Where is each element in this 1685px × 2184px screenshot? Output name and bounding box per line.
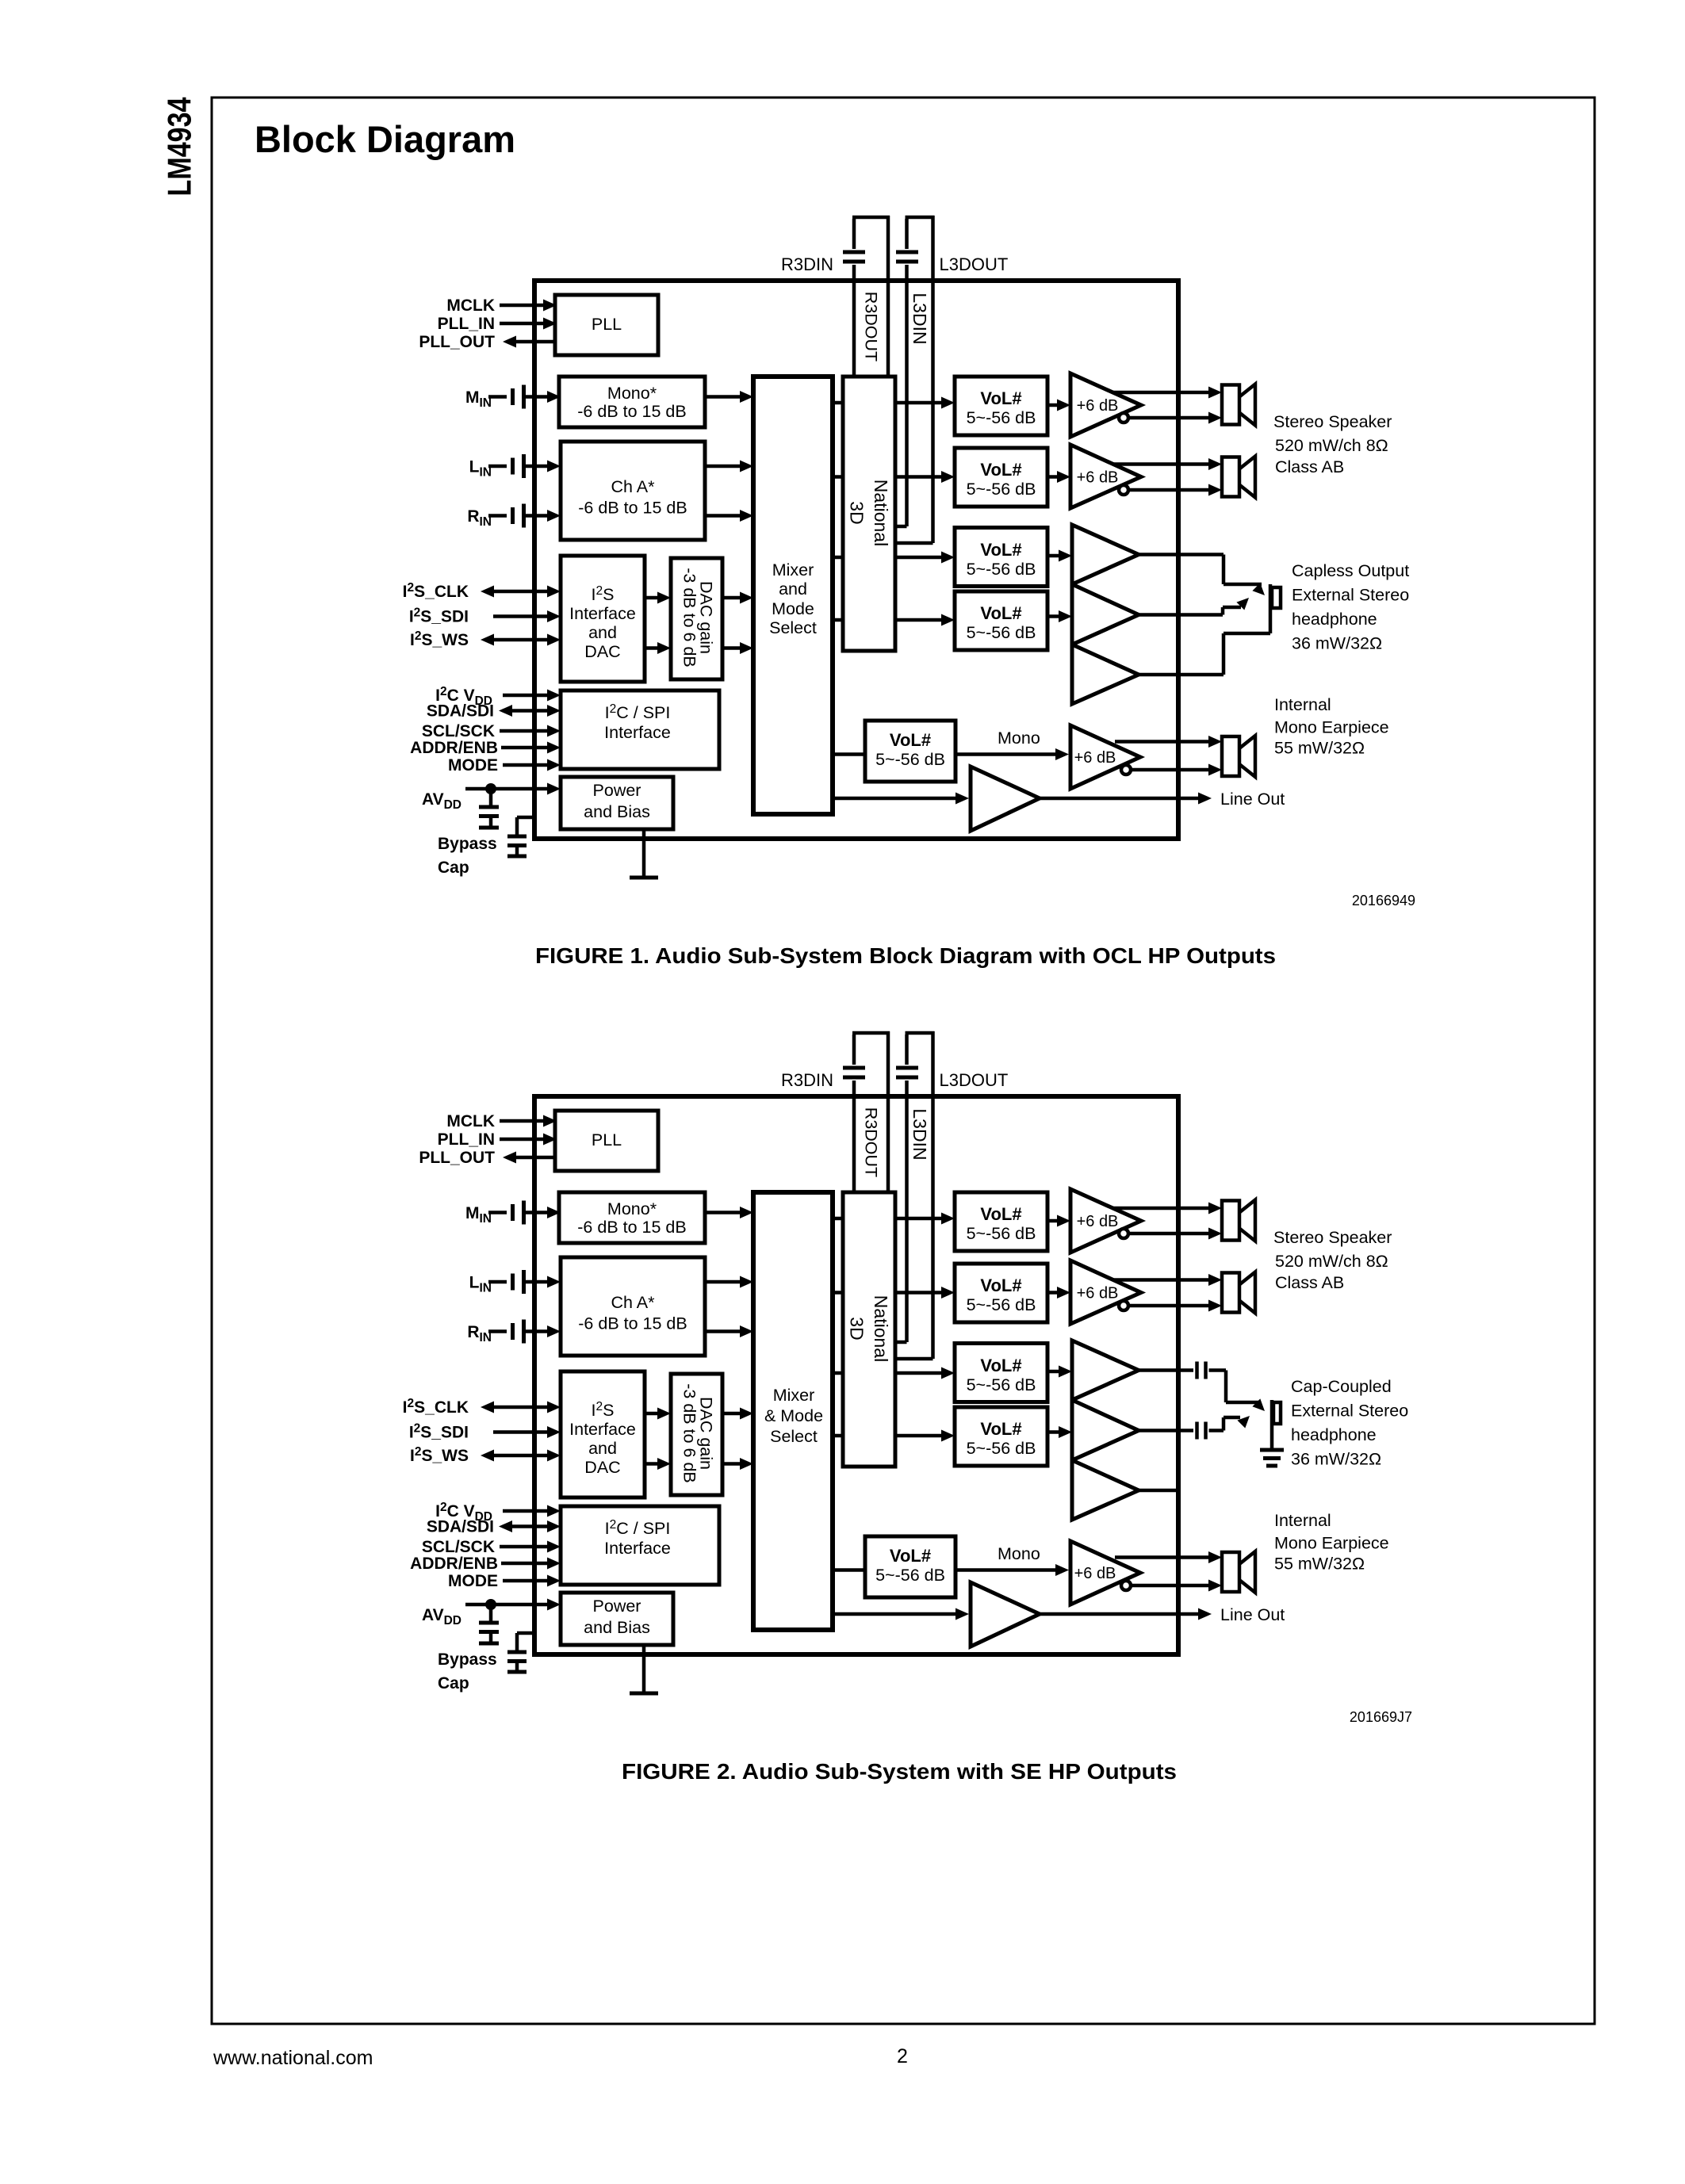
svg-text:Interface: Interface [604, 723, 671, 742]
svg-text:Stereo Speaker: Stereo Speaker [1273, 412, 1392, 431]
svg-text:5~-56 dB: 5~-56 dB [967, 623, 1036, 642]
svg-text:PLL_OUT: PLL_OUT [419, 1149, 495, 1167]
svg-text:Mixer: Mixer [772, 560, 814, 579]
svg-text:Interface: Interface [569, 604, 636, 623]
svg-text:55 mW/32Ω: 55 mW/32Ω [1274, 1555, 1365, 1574]
svg-text:36 mW/32Ω: 36 mW/32Ω [1292, 634, 1382, 653]
svg-text:L3DIN: L3DIN [910, 293, 930, 344]
svg-text:MODE: MODE [448, 1572, 498, 1590]
svg-text:Mono Earpiece: Mono Earpiece [1274, 718, 1389, 737]
svg-text:3D: 3D [847, 1317, 867, 1340]
svg-text:R3DOUT: R3DOUT [862, 1107, 881, 1177]
svg-text:Interface: Interface [604, 1539, 671, 1558]
svg-text:5~-56 dB: 5~-56 dB [875, 750, 945, 769]
svg-text:VoL#: VoL# [980, 460, 1021, 480]
svg-text:PLL_IN: PLL_IN [438, 1130, 495, 1149]
svg-text:+6 dB: +6 dB [1077, 397, 1119, 415]
svg-text:2: 2 [897, 2045, 908, 2067]
svg-text:Cap: Cap [438, 859, 469, 877]
svg-text:5~-56 dB: 5~-56 dB [967, 408, 1036, 427]
svg-text:36 mW/32Ω: 36 mW/32Ω [1291, 1450, 1381, 1469]
svg-text:FIGURE 1. Audio Sub-System Blo: FIGURE 1. Audio Sub-System Block Diagram… [535, 943, 1276, 968]
svg-text:Cap: Cap [438, 1674, 469, 1693]
svg-text:Mixer: Mixer [773, 1386, 815, 1405]
svg-text:Mono Earpiece: Mono Earpiece [1274, 1534, 1389, 1553]
svg-text:Bypass: Bypass [438, 835, 497, 853]
svg-text:R3DOUT: R3DOUT [862, 292, 881, 361]
svg-text:+6 dB: +6 dB [1074, 749, 1116, 767]
svg-text:VoL#: VoL# [980, 1419, 1021, 1439]
svg-text:R3DIN: R3DIN [781, 1070, 833, 1090]
svg-text:DAC: DAC [584, 1458, 620, 1477]
svg-text:headphone: headphone [1292, 610, 1377, 629]
svg-text:and: and [588, 1439, 617, 1458]
svg-text:Class AB: Class AB [1275, 1273, 1344, 1292]
svg-text:5~-56 dB: 5~-56 dB [967, 560, 1036, 579]
svg-text:I2S: I2S [592, 1400, 615, 1420]
svg-text:SDA/SDI: SDA/SDI [427, 1518, 494, 1536]
svg-text:5~-56 dB: 5~-56 dB [875, 1566, 945, 1585]
svg-text:Stereo Speaker: Stereo Speaker [1273, 1228, 1392, 1247]
svg-text:VoL#: VoL# [980, 1204, 1021, 1224]
svg-text:5~-56 dB: 5~-56 dB [967, 1295, 1036, 1314]
svg-text:R3DIN: R3DIN [781, 254, 833, 274]
svg-text:PLL: PLL [592, 315, 622, 334]
svg-text:SDA/SDI: SDA/SDI [427, 702, 494, 721]
svg-text:Internal: Internal [1274, 695, 1331, 714]
svg-text:External Stereo: External Stereo [1291, 1402, 1408, 1421]
svg-text:and: and [588, 623, 617, 642]
svg-text:55 mW/32Ω: 55 mW/32Ω [1274, 739, 1365, 758]
svg-text:MCLK: MCLK [446, 1112, 495, 1130]
svg-text:3D: 3D [847, 501, 867, 524]
svg-text:L3DIN: L3DIN [910, 1108, 930, 1160]
svg-text:PLL_IN: PLL_IN [438, 315, 495, 333]
svg-text:SCL/SCK: SCL/SCK [422, 1538, 495, 1556]
svg-text:L3DOUT: L3DOUT [940, 254, 1009, 274]
svg-text:Ch A*: Ch A* [611, 1293, 656, 1312]
svg-text:National: National [871, 480, 891, 546]
svg-text:520 mW/ch 8Ω: 520 mW/ch 8Ω [1275, 1252, 1388, 1271]
svg-text:Bypass: Bypass [438, 1650, 497, 1669]
svg-text:VoL#: VoL# [980, 388, 1021, 408]
svg-text:-6 dB to 15 dB: -6 dB to 15 dB [578, 499, 687, 518]
svg-text:MCLK: MCLK [446, 296, 495, 315]
svg-text:Interface: Interface [569, 1420, 636, 1439]
svg-text:20166949: 20166949 [1352, 893, 1415, 908]
svg-text:Capless Output: Capless Output [1292, 561, 1409, 580]
svg-text:and Bias: and Bias [584, 1618, 650, 1637]
svg-text:Mono*: Mono* [607, 1199, 657, 1218]
svg-text:VoL#: VoL# [980, 540, 1021, 560]
svg-text:5~-56 dB: 5~-56 dB [967, 480, 1036, 499]
svg-text:& Mode: & Mode [764, 1406, 823, 1425]
svg-text:Select: Select [770, 1427, 818, 1446]
svg-text:SCL/SCK: SCL/SCK [422, 722, 495, 740]
svg-text:MODE: MODE [448, 756, 498, 775]
svg-text:Mono: Mono [998, 729, 1040, 748]
svg-text:VoL#: VoL# [890, 730, 931, 750]
svg-text:5~-56 dB: 5~-56 dB [967, 1439, 1036, 1458]
svg-text:-3 dB to 6 dB: -3 dB to 6 dB [680, 1383, 699, 1483]
svg-text:L3DOUT: L3DOUT [940, 1070, 1009, 1090]
svg-text:Class AB: Class AB [1275, 457, 1344, 476]
svg-text:National: National [871, 1295, 891, 1362]
svg-text:I2S: I2S [592, 584, 615, 604]
svg-text:headphone: headphone [1291, 1425, 1377, 1444]
svg-text:-3 dB to 6 dB: -3 dB to 6 dB [680, 568, 699, 667]
svg-text:Mono*: Mono* [607, 384, 657, 403]
svg-text:VoL#: VoL# [980, 1276, 1021, 1295]
svg-text:-6 dB to 15 dB: -6 dB to 15 dB [577, 402, 686, 421]
svg-text:Line Out: Line Out [1220, 1605, 1285, 1624]
svg-text:ADDR/ENB: ADDR/ENB [410, 739, 498, 757]
svg-text:5~-56 dB: 5~-56 dB [967, 1224, 1036, 1243]
svg-text:Block Diagram: Block Diagram [255, 118, 515, 160]
svg-text:Mode: Mode [772, 599, 814, 618]
svg-text:Ch A*: Ch A* [611, 477, 656, 496]
svg-text:External Stereo: External Stereo [1292, 586, 1409, 605]
svg-text:-6 dB to 15 dB: -6 dB to 15 dB [577, 1218, 686, 1237]
svg-text:Line Out: Line Out [1220, 790, 1285, 809]
svg-text:+6 dB: +6 dB [1077, 1285, 1119, 1302]
svg-text:Power: Power [593, 781, 641, 800]
svg-text:VoL#: VoL# [980, 603, 1021, 623]
svg-text:+6 dB: +6 dB [1077, 469, 1119, 487]
svg-text:VoL#: VoL# [980, 1356, 1021, 1375]
svg-text:www.national.com: www.national.com [213, 2047, 373, 2069]
svg-text:and: and [779, 579, 807, 599]
svg-text:and Bias: and Bias [584, 802, 650, 821]
svg-text:Select: Select [769, 618, 817, 637]
svg-text:FIGURE 2. Audio Sub-System wit: FIGURE 2. Audio Sub-System with SE HP Ou… [622, 1759, 1177, 1784]
svg-text:Power: Power [593, 1597, 641, 1616]
svg-text:Cap-Coupled: Cap-Coupled [1291, 1377, 1392, 1396]
svg-text:201669J7: 201669J7 [1350, 1709, 1412, 1725]
svg-text:VoL#: VoL# [890, 1546, 931, 1566]
svg-text:+6 dB: +6 dB [1077, 1213, 1119, 1230]
svg-text:-6 dB to 15 dB: -6 dB to 15 dB [578, 1314, 687, 1333]
svg-text:PLL_OUT: PLL_OUT [419, 333, 495, 351]
svg-text:Mono: Mono [998, 1544, 1040, 1563]
svg-text:DAC: DAC [584, 642, 620, 661]
svg-text:520 mW/ch 8Ω: 520 mW/ch 8Ω [1275, 436, 1388, 455]
svg-text:+6 dB: +6 dB [1074, 1565, 1116, 1582]
svg-text:5~-56 dB: 5~-56 dB [967, 1375, 1036, 1394]
svg-text:PLL: PLL [592, 1130, 622, 1149]
svg-text:Internal: Internal [1274, 1511, 1331, 1530]
svg-text:ADDR/ENB: ADDR/ENB [410, 1555, 498, 1573]
svg-text:LM4934: LM4934 [161, 97, 198, 197]
